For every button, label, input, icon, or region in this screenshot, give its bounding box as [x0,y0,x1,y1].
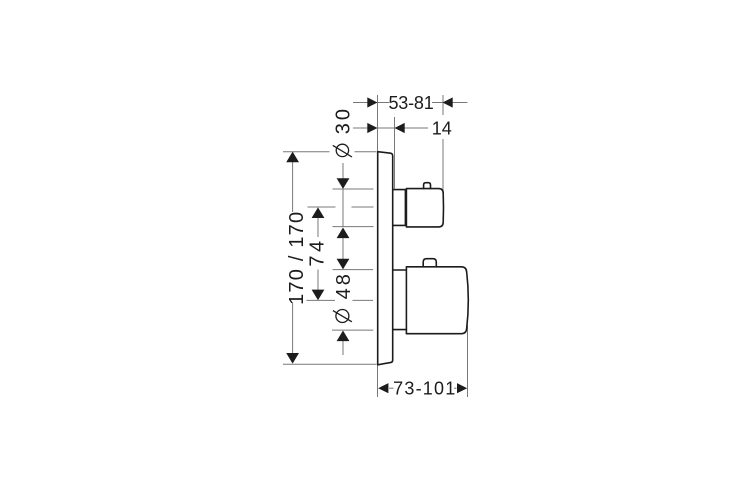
arrow 14 left [367,123,377,133]
arrow dia30 bottom [337,228,350,239]
dimension line 53-81 right segment [432,102,468,104]
arrow dia48 bottom [337,331,350,342]
dimension line 74 upper [317,218,319,238]
svg-text:48: 48 [333,271,355,299]
extension line small knob bottom [333,226,374,228]
big knob body [406,267,468,334]
arrow 74 top [312,207,325,218]
extension line plate top going left [283,151,330,153]
arrow 74 bottom [312,290,325,301]
diameter symbol for 48 [336,310,349,323]
arrow dia48 top [337,259,350,270]
svg-text:14: 14 [432,118,452,138]
diameter column stem above small knob [342,163,344,179]
diameter column stem below big knob [342,341,344,355]
big knob sleeve bottom [393,329,406,331]
arrow 73-101 left [378,383,388,393]
extension line, wall face vertical (bottom) [377,365,379,397]
big knob sleeve top [393,269,406,271]
arrow 170/170 bottom [286,353,299,364]
dimension line 170/170 lower [292,303,294,354]
wall plate escutcheon [378,152,393,365]
extension line plate bottom going left [283,363,377,365]
dimension line 73-101 left stub [389,387,394,389]
centerline small knob [308,206,336,208]
extension line, small knob front x=443 upper part [442,95,444,115]
dimension line 53-81 left segment [353,102,389,104]
extension line big knob bottom [332,329,373,331]
extension line, big knob front x=467.5 [467,325,469,397]
svg-text:30: 30 [332,106,354,134]
svg-text:73-101: 73-101 [393,379,456,399]
extension line small knob top [333,188,374,190]
extension line, sleeve front x=394.5 [394,117,396,189]
diameter symbol for 30 [336,144,348,156]
arrow 14 right [395,123,405,133]
big knob tab [423,259,436,267]
arrow dia30 top [337,178,350,189]
dimension line 74 lower [317,270,319,291]
arrow 53-81 left [367,97,377,107]
dimension line 14 left segment [353,127,395,129]
arrow 170/170 top [286,152,299,163]
centerline big knob [307,299,336,301]
extension line big knob top [333,269,374,271]
svg-text:74: 74 [306,237,328,266]
diameter column line through small knob span [342,189,344,227]
small knob tab [424,183,431,189]
small knob body [406,189,443,227]
diameter column stem between knobs [342,238,344,259]
arrow 73-101 right [457,383,467,393]
arrow 53-81 right [443,97,453,107]
extension line, small knob front x=443 lower part [442,139,444,191]
dimension line 170/170 upper [292,162,294,212]
svg-text:170 / 170: 170 / 170 [286,211,308,305]
svg-text:53-81: 53-81 [388,93,433,113]
extension line, wall face vertical (top) [377,95,379,152]
dimension line 73-101 right stub [454,387,457,389]
small knob sleeve [393,190,405,226]
dimension line 14 right tail [395,127,429,129]
